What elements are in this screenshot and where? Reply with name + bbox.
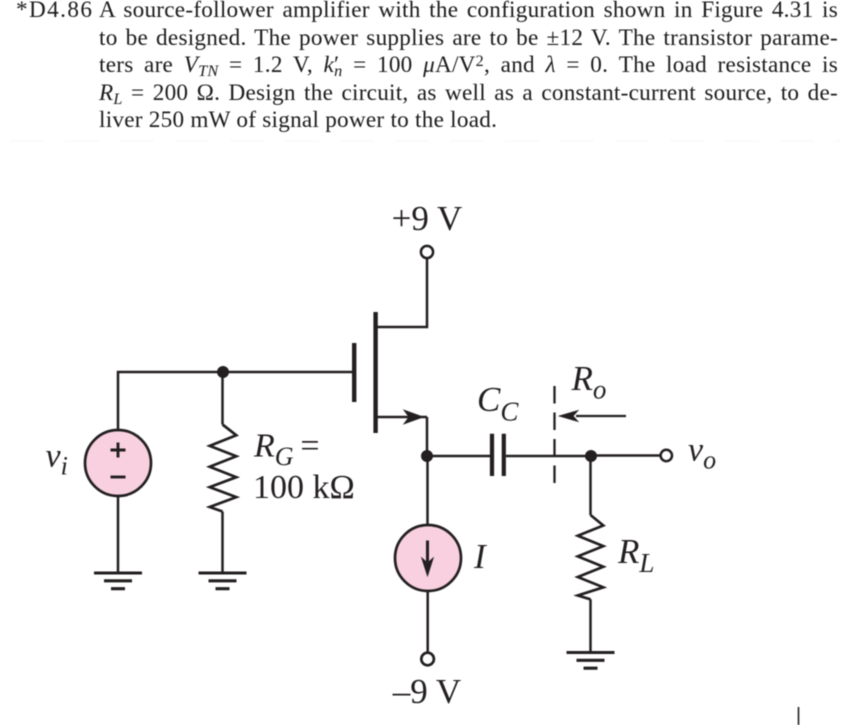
wire RL to ground [589, 599, 592, 652]
wire +9V to drain [377, 258, 427, 327]
wire node to capacitor [427, 455, 490, 458]
transistor M1 source lead [377, 416, 427, 419]
svg-text:vo: vo [688, 432, 716, 475]
svg-text:vi: vi [46, 438, 68, 481]
page edge mark [798, 707, 800, 725]
current source I arrowhead [421, 557, 434, 578]
transistor M1 channel bar [373, 312, 377, 433]
wire gate [118, 372, 352, 430]
resistor RL [578, 515, 604, 599]
problem number [16, 0, 93, 25]
capacitor CC plates [492, 434, 504, 476]
arrow Ro pointing left [576, 415, 626, 417]
vo terminal [661, 450, 672, 461]
svg-text:I: I [473, 537, 488, 576]
wire current source to -9V terminal [426, 591, 429, 652]
source vi plus sign [111, 443, 126, 458]
svg-text:Ro: Ro [571, 359, 607, 405]
resistor RG [210, 425, 237, 512]
arrowhead Ro [558, 410, 580, 423]
node source junction [421, 450, 433, 462]
wire output node to RL [589, 456, 592, 515]
svg-text:100 kΩ: 100 kΩ [253, 469, 355, 506]
problem text [99, 0, 838, 25]
wire capacitor to output node [506, 455, 591, 458]
svg-text:RL: RL [617, 532, 654, 578]
wire RG top [221, 372, 224, 425]
wire RG to ground [221, 512, 224, 573]
wire source to node [426, 417, 429, 456]
svg-text:+9 V: +9 V [392, 199, 463, 238]
wire to vo terminal [591, 454, 661, 457]
source vi circle [85, 430, 151, 496]
ground vi [94, 573, 142, 589]
wire vi to ground [117, 496, 120, 573]
ground RG [199, 573, 247, 589]
current source I arrow shaft [426, 541, 429, 563]
svg-text:CC: CC [477, 380, 519, 427]
source vi minus sign [111, 476, 126, 479]
dashed boundary line Ro [553, 386, 555, 483]
svg-text:RG =: RG = [253, 428, 320, 472]
transistor M1 gate bar [352, 343, 356, 402]
svg-text:–9 V: –9 V [392, 672, 461, 711]
+9 V terminal [421, 246, 433, 258]
faint scan artifact line [10, 140, 840, 142]
current source I circle [395, 525, 461, 591]
node gate junction [217, 366, 229, 378]
node output junction [585, 450, 597, 462]
wire node to current source [426, 456, 429, 526]
ground RL [567, 653, 615, 669]
-9 V terminal [421, 653, 434, 666]
transistor M1 source arrowhead [403, 409, 425, 425]
